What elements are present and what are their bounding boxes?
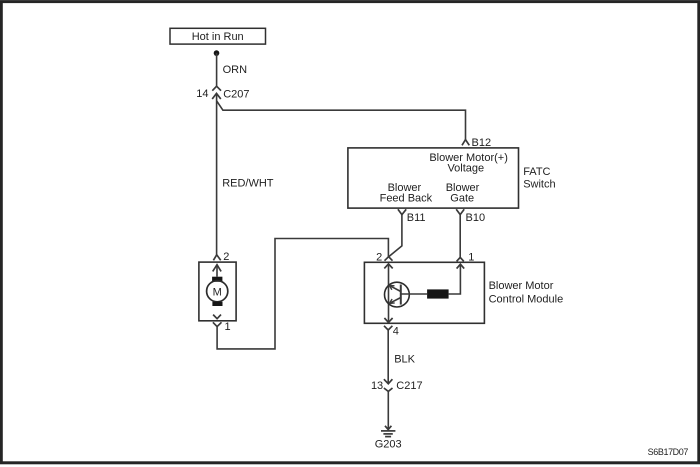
wire ORN: dot to connector C207 <box>216 53 218 86</box>
svg-text:1: 1 <box>468 252 474 264</box>
svg-text:RED/WHT: RED/WHT <box>222 177 274 189</box>
svg-text:B12: B12 <box>472 137 492 149</box>
svg-text:BLK: BLK <box>394 354 415 366</box>
svg-text:B11: B11 <box>407 212 426 224</box>
wire: transistor base to resistor <box>401 293 427 295</box>
svg-text:1: 1 <box>225 321 231 333</box>
wire RED/WHT: C207 down to blower motor pin 2 <box>216 93 218 254</box>
pin B11 chevron below FATC switch <box>398 209 406 214</box>
power source box "Hot in Run" <box>170 28 266 44</box>
svg-text:14: 14 <box>196 88 208 100</box>
motor brush bottom <box>212 302 222 306</box>
svg-text:M: M <box>213 286 222 298</box>
wire: C217 down to ground <box>387 391 389 429</box>
connector C217 female chevron <box>384 388 393 391</box>
node: splice dot under Hot in Run <box>214 50 220 56</box>
svg-text:Hot in Run: Hot in Run <box>192 31 244 43</box>
svg-text:13: 13 <box>371 380 383 392</box>
svg-text:G203: G203 <box>375 439 402 451</box>
blower motor box M1 <box>199 262 236 321</box>
pin B12 chevron at FATC switch <box>462 140 469 146</box>
wire: B10 stub into pin 1 <box>459 255 461 257</box>
wire: resistor to module pin 1 <box>449 264 461 294</box>
connector C207 female chevron (pin 14) <box>212 86 221 91</box>
connector C217 male arrow (pin 13) <box>384 379 393 384</box>
svg-text:2: 2 <box>376 252 382 264</box>
FATC switch box <box>348 148 519 208</box>
module pin 4 chevron below box <box>384 326 392 330</box>
svg-text:Switch: Switch <box>523 179 555 191</box>
svg-text:Voltage: Voltage <box>447 162 484 174</box>
svg-text:Gate: Gate <box>450 192 474 204</box>
blower motor control module box <box>364 262 484 323</box>
motor pin 2 arrow inside box <box>213 265 221 272</box>
module pin 2 arrow inside <box>384 264 392 269</box>
svg-text:Blower Motor: Blower Motor <box>489 280 554 292</box>
svg-text:S6B17D07: S6B17D07 <box>648 447 689 457</box>
svg-text:B10: B10 <box>466 212 486 224</box>
svg-text:4: 4 <box>393 326 399 338</box>
pin B10 chevron below FATC switch <box>456 209 464 214</box>
module pin 4 arrow inside (down) <box>384 318 392 322</box>
module pin 2 chevron <box>385 257 393 261</box>
motor pin 1 chevron below box <box>213 322 222 326</box>
ground G203 arrowhead <box>385 426 391 430</box>
motor armature circle <box>207 281 228 302</box>
resistor R1 (gate resistor) <box>427 289 449 298</box>
svg-text:C207: C207 <box>223 88 249 100</box>
svg-text:FATC: FATC <box>523 166 550 178</box>
wire branch: C207 to B12 of FATC switch <box>217 101 466 140</box>
wire: B10 to module pin 1 <box>459 215 461 255</box>
module pin 1 chevron <box>457 257 464 261</box>
transistor Q1 circle <box>385 282 410 307</box>
wire: motor pin 1 loop to module pin 2 <box>217 239 388 349</box>
svg-text:2: 2 <box>223 251 229 263</box>
wire: collector-emitter vertical through transistor <box>388 264 390 323</box>
motor pin 2 chevron above box <box>213 255 220 260</box>
module pin 1 arrow inside <box>457 264 465 268</box>
transistor Q1 collector diagonal <box>389 285 401 291</box>
motor pin 1 chevron inside box <box>213 315 221 319</box>
svg-text:Control Module: Control Module <box>489 293 564 305</box>
wire BLK: pin 4 down to C217 <box>387 330 389 384</box>
motor brush top <box>212 277 222 282</box>
connector C207 male arrow <box>212 93 221 99</box>
svg-text:ORN: ORN <box>223 64 248 76</box>
transistor Q1 emitter diagonal with arrow <box>390 298 401 304</box>
wire: B11 to module pin 2 <box>389 215 402 257</box>
svg-text:C217: C217 <box>396 380 422 392</box>
ground G203 symbol bars <box>381 430 395 432</box>
transistor Q1 base bar <box>400 285 402 305</box>
svg-text:Feed Back: Feed Back <box>380 192 433 204</box>
